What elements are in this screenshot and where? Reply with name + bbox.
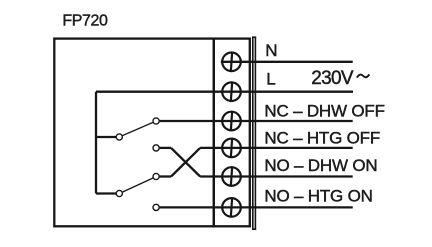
svg-text:L: L (266, 69, 275, 88)
mounting rail (double line at right of terminal block) (252, 37, 256, 229)
wire N: terminal 1 to right (221, 61, 353, 63)
svg-text:NC – HTG OFF: NC – HTG OFF (264, 129, 380, 148)
wire: S1 NO contact stub into crossover (160, 147, 172, 149)
switch S2 NO contact (node to NO-HTG ON) (153, 204, 159, 210)
wire: S2 NC contact stub into crossover (160, 175, 172, 177)
wire: NC-HTG OFF row to terminal 4 and label (200, 147, 353, 149)
svg-text:NO – HTG ON: NO – HTG ON (264, 186, 372, 205)
terminal 6 (NO - HTG ON) (222, 197, 241, 217)
switch S1 NC contact (node to NC-DHW OFF) (153, 118, 159, 124)
wire: NO-HTG ON row to terminal 6 and label (160, 206, 353, 208)
wire: crossover diagonal up (S2 NC to NC-HTG OFF row) (171, 148, 200, 177)
terminal 3 (NC - DHW OFF) (222, 111, 241, 131)
enclosure box FP720 (54, 39, 214, 227)
switch S2 arm (HTG changeover, shown on NC) (122, 178, 153, 192)
terminal 5 (NO - DHW ON) (222, 166, 241, 186)
wire: NO-DHW ON row to terminal 5 and label (200, 175, 353, 177)
switch S2 pivot contact (common, from L) (116, 190, 122, 196)
wire: stub to switch S2 pivot (96, 192, 116, 194)
svg-text:NO – DHW ON: NO – DHW ON (264, 156, 377, 175)
terminal 4 (NC - HTG OFF) (222, 138, 241, 158)
wire: L bus vertical to switch commons (95, 92, 97, 194)
switch S1 pivot contact (common, from L) (116, 134, 122, 140)
svg-text:FP720: FP720 (62, 13, 108, 30)
wire L: net from L terminal into box (common feed) (96, 91, 353, 93)
terminal 2 (L) (222, 82, 241, 102)
terminal block body (214, 39, 250, 227)
switch S2 NC contact (node, crosses to NC-HTG OFF) (153, 173, 159, 179)
svg-text:N: N (265, 41, 277, 60)
terminal 1 (N) (222, 52, 241, 72)
wire: crossover diagonal down (S1 NO to NO-DHW ON row) (171, 148, 200, 177)
switch S1 NO contact (node, crosses to NO-DHW ON) (153, 145, 159, 151)
wire: NC-DHW OFF row to terminal 3 and label (160, 120, 353, 122)
svg-text:NC – DHW OFF: NC – DHW OFF (264, 102, 384, 121)
svg-text:230V: 230V (311, 68, 354, 89)
wire: stub to switch S1 pivot (96, 136, 116, 138)
switch S1 arm (DHW changeover, shown on NC) (122, 122, 153, 135)
